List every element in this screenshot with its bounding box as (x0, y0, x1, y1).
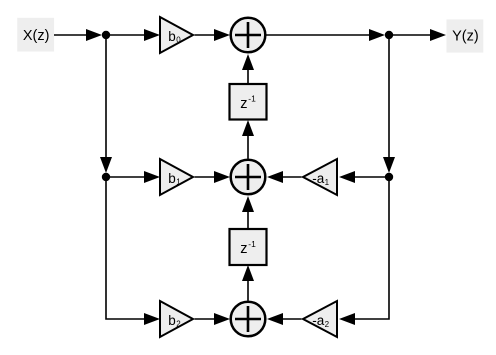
wire node N2 down to node N4 with arrowhead (383, 39, 395, 173)
wire node N4 down and left to gain -a2 with arrowhead (339, 181, 389, 325)
svg-text:-1: -1 (248, 94, 256, 104)
wire gain b1 to summer S2 with arrowhead (195, 171, 231, 183)
wire node N2 to Y(z) with arrowhead (393, 29, 446, 41)
wire node N3 to gain b1 with arrowhead (110, 171, 160, 183)
wire summer S2 up to delay Z1 with arrowhead (242, 120, 254, 159)
input label X(z) (17, 18, 54, 52)
wire gain -a1 to summer S2 with arrowhead (267, 171, 302, 183)
svg-text:Y(z): Y(z) (452, 29, 479, 45)
svg-text:2: 2 (325, 320, 330, 329)
summer S2 (adder, middle) (231, 160, 266, 195)
wire node N1 to gain b0 with arrowhead (110, 29, 160, 41)
wire node N1 down to node N3 with arrowhead (100, 39, 112, 173)
svg-text:2: 2 (176, 320, 181, 329)
node N4 (right middle junction) (385, 173, 393, 181)
wire summer S3 up to delay Z2 with arrowhead (242, 265, 254, 301)
wire node N3 down and right to gain b2 with arrowhead (106, 181, 160, 325)
node N3 (left middle junction) (102, 173, 110, 181)
delay Z1 (z^-1 register, upper) (230, 84, 267, 120)
wire node N4 to gain -a1 with arrowhead (339, 171, 385, 183)
svg-text:X(z): X(z) (23, 28, 50, 44)
delay Z2 (z^-1 register, lower) (230, 229, 267, 265)
wire delay Z1 up to summer S1 with arrowhead (242, 54, 254, 84)
gain b0 (triangle amplifier) (160, 17, 193, 53)
svg-text:z: z (240, 241, 247, 257)
wire delay Z2 up to summer S2 with arrowhead (242, 196, 254, 229)
gain b2 (triangle amplifier) (160, 301, 193, 337)
svg-text:b: b (168, 171, 176, 186)
svg-text:z: z (240, 96, 247, 112)
summer S3 (adder, bottom) (231, 302, 266, 337)
gain b1 (triangle amplifier) (160, 159, 193, 195)
node N2 (output branch junction) (385, 31, 393, 39)
summer S1 (adder, top) (231, 18, 266, 53)
wire gain b2 to summer S3 with arrowhead (195, 313, 231, 325)
wire gain b0 to summer S1 with arrowhead (195, 29, 231, 41)
svg-text:-1: -1 (248, 239, 256, 249)
gain -a1 (triangle amplifier, feedback) (303, 159, 337, 195)
svg-text:0: 0 (176, 36, 181, 45)
wire summer S1 to node N2 with arrowhead (267, 29, 386, 41)
node N1 (input branch junction) (102, 31, 110, 39)
svg-text:b: b (168, 313, 176, 328)
wire X(z) to node N1 with arrowhead (54, 29, 102, 41)
svg-text:1: 1 (176, 178, 181, 187)
svg-text:-a: -a (312, 171, 324, 186)
output label Y(z) (447, 19, 484, 52)
gain -a2 (triangle amplifier, feedback) (303, 301, 337, 337)
svg-text:b: b (168, 29, 176, 44)
svg-text:-a: -a (312, 313, 324, 328)
wire gain -a2 to summer S3 with arrowhead (267, 313, 302, 325)
svg-text:1: 1 (325, 178, 330, 187)
